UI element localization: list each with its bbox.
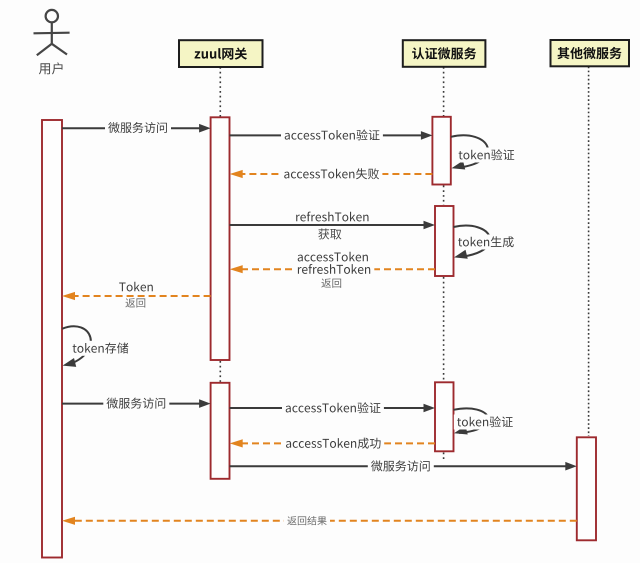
other services lifeline — [588, 67, 590, 437]
message label 微服务访问 (microservice access) 1 — [108, 122, 167, 133]
message label 返回 under Token — [125, 298, 145, 307]
auth activation bar 1 — [432, 117, 450, 185]
header box: zuul gateway — [179, 40, 263, 67]
arrow 11: other services to user (return result) — [74, 520, 577, 522]
self-loop label token验证 2 — [457, 416, 513, 427]
arrow 7: user to zuul (microservice access 2) — [62, 403, 201, 405]
arrow 5: auth to zuul (accessToken refreshToken return) — [242, 268, 435, 270]
message label accessToken成功 (success) — [286, 438, 381, 449]
self-loop label token验证 2 label bg — [454, 415, 516, 430]
message label 微服务访问 3 label bg — [368, 459, 434, 474]
header text zuul网关 — [195, 47, 247, 59]
zuul gateway lifeline segment 2 — [219, 361, 221, 382]
arrow 1: user to zuul (microservice access) — [62, 127, 201, 129]
self-loop label token验证 1 label bg — [455, 148, 517, 163]
self-loop label token生成 (generate) label bg — [455, 235, 517, 250]
header box: other microservices — [551, 40, 630, 66]
arrow 4: zuul to auth (refreshToken get) — [230, 224, 426, 226]
arrow 6: zuul to user (Token return) — [74, 295, 211, 297]
self loop: token generate on auth bar 2 — [454, 226, 491, 257]
self loop: token verify on auth bar 1 — [451, 135, 488, 167]
self-loop label token存储 (store) — [73, 342, 129, 353]
message label 微服务访问 (microservice access) 1 label bg — [105, 120, 171, 135]
arrow 2: zuul to auth (accessToken verify) — [230, 134, 423, 136]
message label accessToken失败 (fail) label bg — [281, 167, 383, 182]
auth service lifeline segment 2 — [443, 186, 445, 206]
message label 返回结果 (return result) — [287, 516, 326, 525]
message label accessToken验证 2 label bg — [282, 401, 384, 416]
message label accessToken (return line 1) — [298, 252, 368, 262]
message label accessToken验证 2 — [286, 402, 381, 413]
message label refreshToken (return line 2) label bg — [294, 262, 375, 277]
arrow 10: zuul to other services (microservice access) — [230, 465, 568, 467]
actor label 用户 (user) — [39, 62, 63, 74]
message label 微服务访问 2 label bg — [103, 396, 169, 411]
arrow 8: zuul to auth (accessToken verify 2) — [230, 407, 426, 409]
arrow 9: auth to zuul (accessToken success) — [242, 442, 435, 444]
header box: auth microservice — [403, 40, 486, 67]
user activation bar — [42, 120, 62, 558]
self-loop label token生成 (generate) — [458, 236, 514, 247]
auth service lifeline segment 3 — [443, 277, 445, 381]
message label 返回 (return, small) — [321, 278, 341, 287]
self-loop label token存储 (store) label bg — [69, 341, 131, 356]
other services activation bar — [577, 437, 596, 540]
auth activation bar 3 — [435, 382, 454, 451]
message label 微服务访问 3 — [371, 460, 430, 471]
self loop: token store on user bar — [62, 326, 91, 365]
header text 其他微服务 (other microservices) — [557, 47, 621, 59]
message label accessToken验证 1 label bg — [281, 128, 383, 143]
auth service lifeline segment 1 — [443, 67, 445, 118]
auth service lifeline segment 4 — [443, 453, 445, 463]
auth activation bar 2 — [435, 206, 454, 276]
message label accessToken成功 (success) label bg — [282, 436, 384, 451]
message label refreshToken (return line 2) — [298, 264, 370, 274]
message label 获取 (get) — [318, 228, 341, 239]
zuul activation bar 1 — [211, 117, 230, 360]
zuul gateway lifeline segment 1 — [219, 67, 221, 118]
self loop: token verify on auth bar 3 — [454, 408, 489, 433]
actor: user stick figure — [34, 10, 70, 55]
message label Token — [119, 282, 153, 292]
self-loop label token验证 1 — [459, 149, 515, 160]
message label accessToken验证 1 — [285, 129, 380, 140]
arrow 3: auth to zuul (accessToken fail) — [242, 173, 433, 175]
message label refreshToken — [296, 212, 368, 222]
header text 认证微服务 (auth microservice) — [412, 47, 476, 59]
message label 微服务访问 2 — [107, 398, 166, 409]
message label accessToken失败 (fail) — [284, 168, 379, 179]
message label 返回结果 (return result) label bg — [284, 514, 330, 527]
zuul activation bar 2 — [211, 383, 230, 479]
